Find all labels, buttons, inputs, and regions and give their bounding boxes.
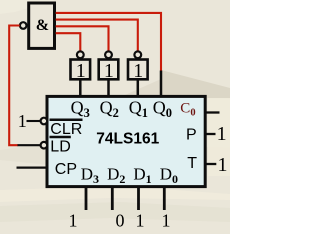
svg-text:P: P [186,127,197,144]
svg-text:CP: CP [55,161,77,178]
svg-text:1: 1 [69,211,78,231]
svg-text:1: 1 [218,154,228,176]
svg-text:1: 1 [18,111,27,131]
svg-text:1: 1 [217,123,227,145]
svg-text:CLR: CLR [50,121,82,138]
svg-text:T: T [187,155,197,172]
svg-text:1: 1 [76,60,86,82]
svg-text:74LS161: 74LS161 [96,130,159,147]
svg-text:1: 1 [162,211,171,231]
svg-text:0: 0 [116,211,125,231]
svg-text:1: 1 [104,60,114,82]
svg-text:LD: LD [50,139,70,156]
svg-text:1: 1 [133,60,143,82]
svg-text:1: 1 [136,211,145,231]
svg-text:&: & [36,17,49,34]
